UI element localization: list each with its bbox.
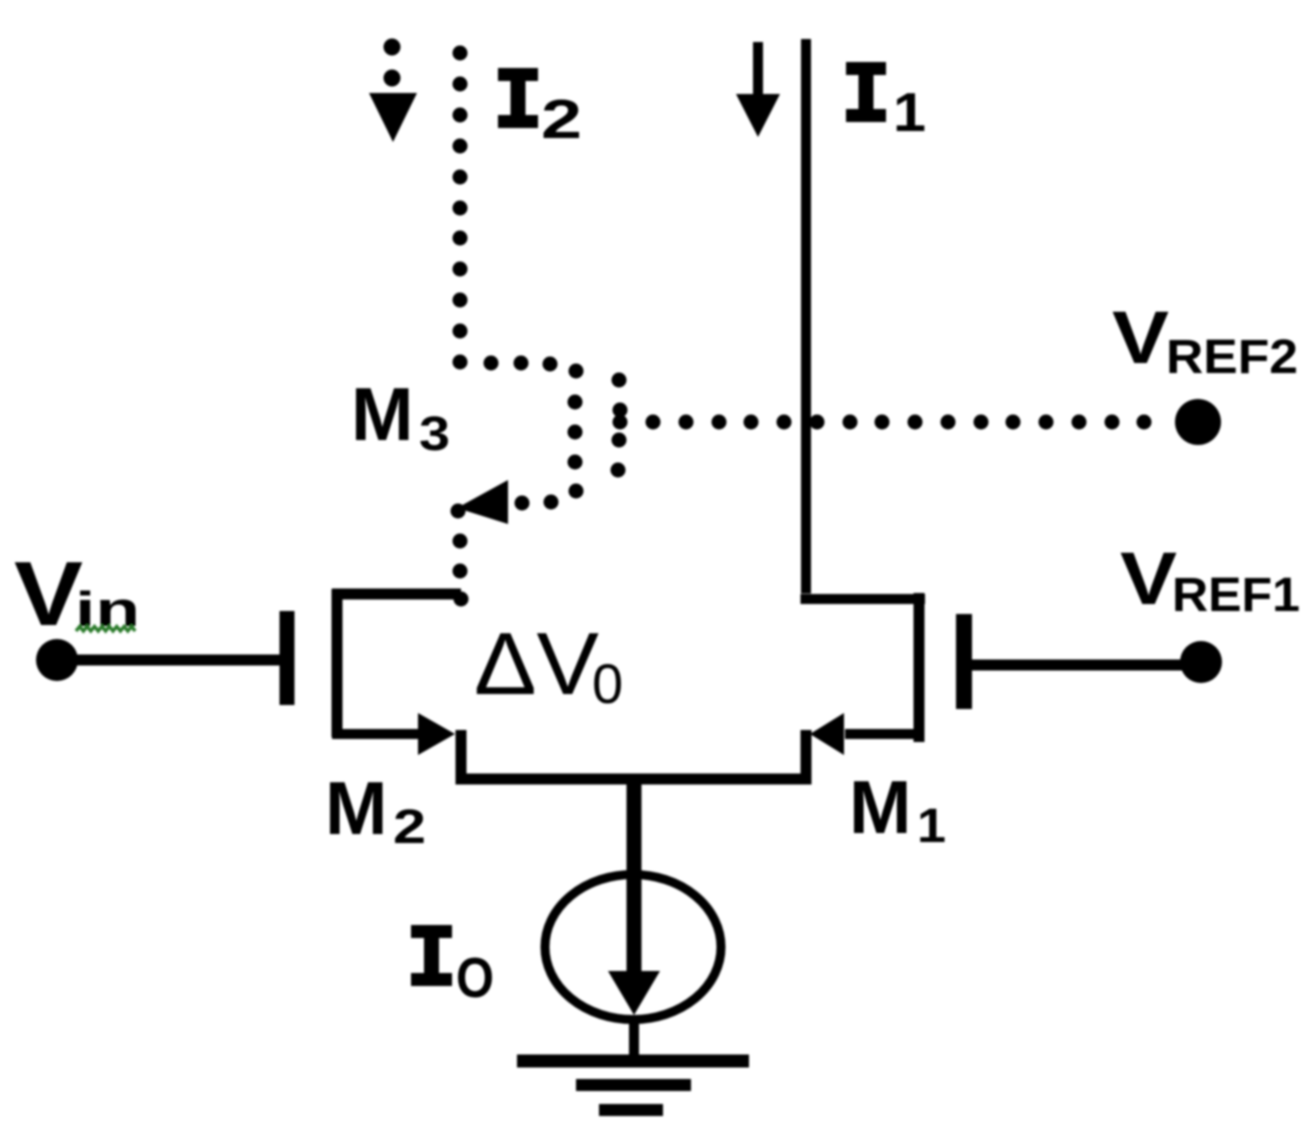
svg-text:1: 1: [917, 800, 946, 853]
label I1: [846, 62, 886, 122]
current source I0 arrow: [608, 971, 660, 1015]
transistor M3 gate bar (dotted vertical, x=619): [611, 373, 628, 478]
svg-text:ΔV: ΔV: [474, 614, 599, 713]
ground: [517, 1055, 749, 1068]
wire M2 source: [332, 729, 420, 739]
node VREF1 terminal: [1180, 641, 1222, 683]
svg-text:M: M: [351, 372, 413, 456]
wire M1 gate to VREF1: [969, 660, 1185, 671]
wire tail to current source (arrow shaft): [627, 779, 642, 1000]
wire dotted I2 vertical segment (x=460): [453, 46, 468, 370]
svg-text:REF1: REF1: [1172, 569, 1300, 622]
wire dotted M3 gate to VREF2 (y=422): [613, 415, 1152, 430]
current source I0 circle: [545, 875, 721, 1020]
spellcheck squiggle under "in": [76, 627, 135, 632]
svg-text:1: 1: [893, 81, 926, 143]
wire dotted M3 drain hook (horizontal then down): [484, 356, 584, 511]
svg-text:M: M: [325, 766, 387, 850]
transistor M1 gate bar: [956, 614, 972, 709]
wire current source to ground: [629, 1018, 639, 1061]
arrow I1 current direction (solid down arrow): [753, 42, 763, 100]
svg-text:O: O: [456, 946, 494, 1010]
label I2: [498, 68, 538, 128]
svg-text:2: 2: [393, 801, 426, 854]
svg-text:2: 2: [541, 88, 582, 150]
transistor M2 gate bar: [280, 611, 295, 705]
label I0: [411, 925, 452, 986]
wire M1 source: [845, 729, 919, 739]
wire M2 drain: [332, 589, 461, 600]
wire dotted M3 source to M2 drain node (x=460): [453, 534, 469, 607]
node Vin terminal: [36, 639, 78, 681]
svg-text:M: M: [849, 765, 911, 849]
transistor M3 source arrow (dotted style, points left): [457, 480, 508, 524]
svg-text:V: V: [1112, 296, 1169, 379]
svg-text:V: V: [1120, 537, 1177, 620]
svg-text:0: 0: [592, 652, 623, 715]
arrow I2 current direction (dotted down arrow): [384, 39, 401, 56]
wire common source tail (M1 step, tail, M2 step): [461, 730, 806, 779]
transistor M1 source arrow (points left): [810, 713, 844, 755]
node VREF2 terminal: [1175, 399, 1221, 445]
svg-text:REF2: REF2: [1166, 331, 1298, 384]
wire Vin to M2 gate: [76, 655, 283, 666]
transistor M1 channel bar: [914, 593, 925, 742]
transistor M2 source arrow (points right): [418, 713, 455, 755]
transistor M2 channel bar: [332, 589, 343, 737]
wire I1 vertical line with M1 drain wire: [801, 39, 926, 599]
svg-text:3: 3: [419, 408, 450, 461]
svg-text:V: V: [14, 544, 83, 645]
